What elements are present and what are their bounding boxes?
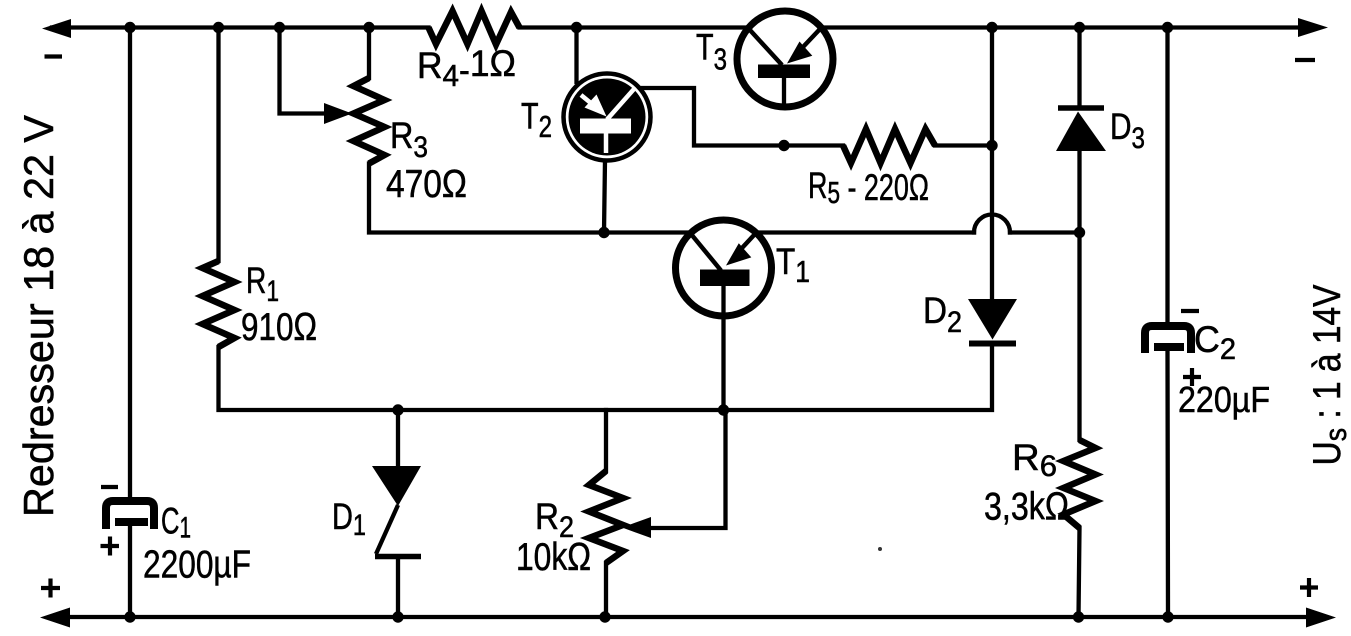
node D1 top [392,404,403,415]
wire R3 bottom leg + horizontal bus y=232.5 [369,164,974,233]
wire R3 wiper arm [280,28,329,114]
wire hop over D2 branch [974,215,1010,233]
wire C1 branch lower [128,527,132,617]
wire D2 branch upper [990,28,994,301]
wire R5 right to D2 branch [935,143,992,147]
wire T2 collector drop [574,28,578,83]
node bottom R2 [599,611,610,622]
node top rail C1 [124,22,135,33]
node top rail T2 [571,22,582,33]
transistor T3 [737,11,833,107]
node bottom-left arrow [40,608,70,628]
resistor R1 [203,261,235,347]
wire R6 lower leg [1079,528,1080,617]
node bottom R6 [1073,611,1084,622]
node plus bottom-left [41,579,60,598]
wire D3 to bus [1077,151,1081,233]
wire R3 top leg [367,28,371,79]
node top rail C2 [1162,22,1173,33]
node bottom-right arrow [1306,608,1336,628]
capacitor C1 [106,501,154,529]
node plus C2 [1183,368,1201,386]
node bottom D1 [392,611,403,622]
wire C2 branch upper [1165,28,1169,327]
node R3 wiper arrowhead [324,103,352,124]
wire T3 base junction to R5 [784,143,843,147]
diode D1 (zener) [372,410,421,617]
node R2 wiper arrowhead [622,517,651,538]
node speck [878,547,882,551]
svg-text:10kΩ: 10kΩ [516,536,591,579]
node T1 base / wiper [718,404,729,415]
svg-text:470Ω: 470Ω [386,163,467,206]
wire D2 branch lower, to mid bus [724,346,993,410]
node minus top-right [1295,58,1315,62]
node T2 base / bus [598,227,609,238]
node top rail R3/R4 [363,22,374,33]
wire R1 branch upper [216,28,220,262]
wire top rail [52,25,429,29]
wire T1 base down [721,286,725,410]
svg-text:3,3kΩ: 3,3kΩ [984,486,1069,529]
svg-text:910Ω: 910Ω [241,306,317,349]
node top rail D3 [1074,22,1085,33]
transistor T1 [676,220,772,316]
node R5 / D2 [986,140,997,151]
node minus top-left [45,54,63,58]
wire hop to D3 node [1010,230,1080,234]
node plus C1 [101,537,120,556]
wire R2 wiper to T1 base [649,410,726,528]
node minus C2 [1181,309,1199,313]
diode D2 [968,299,1017,344]
node top rail wiper [274,22,285,33]
node bottom C1 [124,611,135,622]
svg-text:2200µF: 2200µF [143,544,251,587]
resistor R6 [1064,440,1096,528]
resistor R5 [843,129,935,163]
svg-text:Redresseur 18 à 22 V: Redresseur 18 à 22 V [15,115,62,517]
node top rail R1 [213,22,224,33]
node top rail D2 [986,22,997,33]
wire C1 branch upper [128,28,132,502]
node top-right arrow [1298,18,1328,37]
potentiometer R2 [589,471,623,563]
wire T2 emitter to T3 base [642,88,784,146]
svg-text:220µF: 220µF [1178,379,1270,420]
node top-left arrow [42,19,71,38]
wire mid bus y=410 left part [398,408,724,412]
wire R2 top leg [604,410,608,471]
node bus / D3 R6 [1074,227,1085,238]
capacitor C2 [1145,326,1191,353]
transistor T2 (power, inverse) [564,74,651,161]
diode D3 [1056,108,1106,151]
wire R2 bottom leg [604,563,608,617]
resistor R4 [429,11,520,45]
resistor R3 (adjustable) [354,78,385,164]
wire R1 bottom leg to node [219,347,399,410]
wire T2 base down [604,160,605,233]
node plus bottom-right [1300,578,1318,597]
wire bottom rail [52,615,1316,619]
wire R6 upper leg [1077,233,1081,441]
wire C2 branch lower [1165,352,1170,617]
node minus C1 [101,485,118,489]
node bottom C2 [1162,611,1173,622]
svg-text:R5 - 220Ω: R5 - 220Ω [808,165,929,210]
wire D3/R6 branch top [1077,28,1081,107]
node T3 base / R5 [778,140,789,151]
